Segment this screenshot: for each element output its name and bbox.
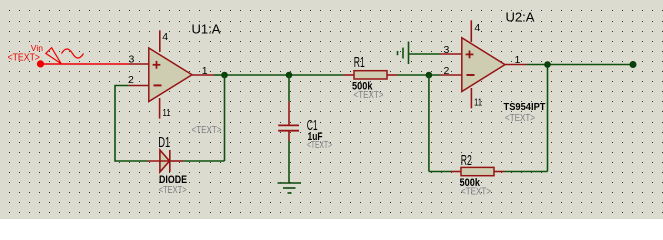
wire U1 output to junction A [214, 74, 225, 76]
wire R2 row left segment [429, 171, 451, 173]
node VIN dot [37, 60, 44, 67]
wire junction B down to C1 [288, 75, 290, 101]
resistor R1 right pin [387, 74, 397, 76]
resistor R2 left pin [451, 171, 461, 173]
node junction A [221, 72, 228, 79]
diode D1 anode pin [148, 160, 170, 162]
op-amp U2 pin 2 stub [440, 74, 462, 76]
op-amp U2 pin 3 stub [440, 53, 462, 55]
capacitor C1 bottom pin [288, 131, 290, 141]
wire junction A to R1 [225, 74, 344, 76]
svg-text:2: 2 [444, 65, 450, 77]
wire VIN to U1 pin3 [41, 63, 130, 65]
diode D1 cathode pin [170, 160, 183, 162]
op-amp U2 pin 4 (power) [470, 20, 472, 42]
wire output vertical up to junction D [547, 65, 549, 172]
op-amp U1 pin 4 (power) [159, 30, 161, 52]
wire junction C down to R2 row [428, 75, 430, 172]
svg-text:<TEXT>: <TEXT> [192, 124, 222, 136]
svg-text:1: 1 [515, 54, 521, 66]
svg-text:R1: R1 [354, 54, 365, 71]
svg-text:4: 4 [474, 22, 480, 34]
op-amp U1 pin 11 (power) [159, 98, 161, 119]
diode D1 body [160, 150, 170, 172]
svg-text:<TEXT>: <TEXT> [354, 89, 384, 101]
op-amp U1 pin 3 stub [129, 63, 149, 65]
wire feedback right vertical (junction A down to D1) [224, 75, 226, 161]
svg-text:U1:A: U1:A [192, 21, 221, 36]
svg-text:R2: R2 [461, 152, 472, 169]
svg-text:11: 11 [163, 107, 171, 119]
node output terminal [630, 61, 637, 68]
svg-text:3: 3 [444, 44, 450, 56]
svg-text:11: 11 [474, 97, 482, 109]
op-amp U2 pin 11 (power) [470, 88, 472, 108]
svg-text:<TEXT>: <TEXT> [159, 184, 187, 196]
wire U2 output run [527, 64, 634, 66]
wire U1 pin2 feedback left vertical [115, 86, 148, 162]
capacitor C1 top pin [288, 101, 290, 125]
op-amp U1 pin 1 output stub [192, 74, 214, 76]
svg-text:2: 2 [128, 74, 134, 86]
wire C1 to ground [288, 141, 290, 183]
resistor R1 body [354, 71, 387, 79]
battery reference symbol [398, 42, 409, 65]
wire battery to U2 pin3 [409, 53, 441, 55]
resistor R2 right pin [494, 171, 505, 173]
ground symbol [278, 183, 302, 193]
svg-text:<TEXT>: <TEXT> [307, 139, 332, 151]
generator VIN sine source [46, 48, 84, 64]
resistor R2 body [461, 167, 494, 175]
op-amp U2 body [462, 38, 505, 92]
svg-text:4: 4 [162, 31, 168, 43]
op-amp U2 pin 1 output stub [505, 64, 527, 66]
svg-text:<TEXT>: <TEXT> [461, 186, 491, 198]
op-amp U1 body [149, 48, 192, 102]
node junction C (R2 tap) [426, 72, 433, 79]
svg-text:<TEXT>: <TEXT> [8, 51, 41, 63]
capacitor C1 plates [278, 125, 299, 130]
svg-text:3: 3 [129, 54, 135, 66]
resistor R1 left pin [344, 74, 355, 76]
wire R2 to output vertical [505, 171, 548, 173]
svg-text:U2:A: U2:A [506, 9, 535, 24]
op-amp U1 pin 2 stub [129, 85, 149, 87]
node junction D [544, 61, 551, 68]
wire R1 to junction C [397, 74, 440, 76]
node junction B (C1 tap) [286, 72, 293, 79]
wire D1 cathode to feedback vertical [183, 160, 225, 162]
svg-text:1: 1 [202, 65, 208, 77]
svg-text:D1: D1 [158, 134, 170, 151]
svg-text:<TEXT>: <TEXT> [505, 112, 535, 124]
